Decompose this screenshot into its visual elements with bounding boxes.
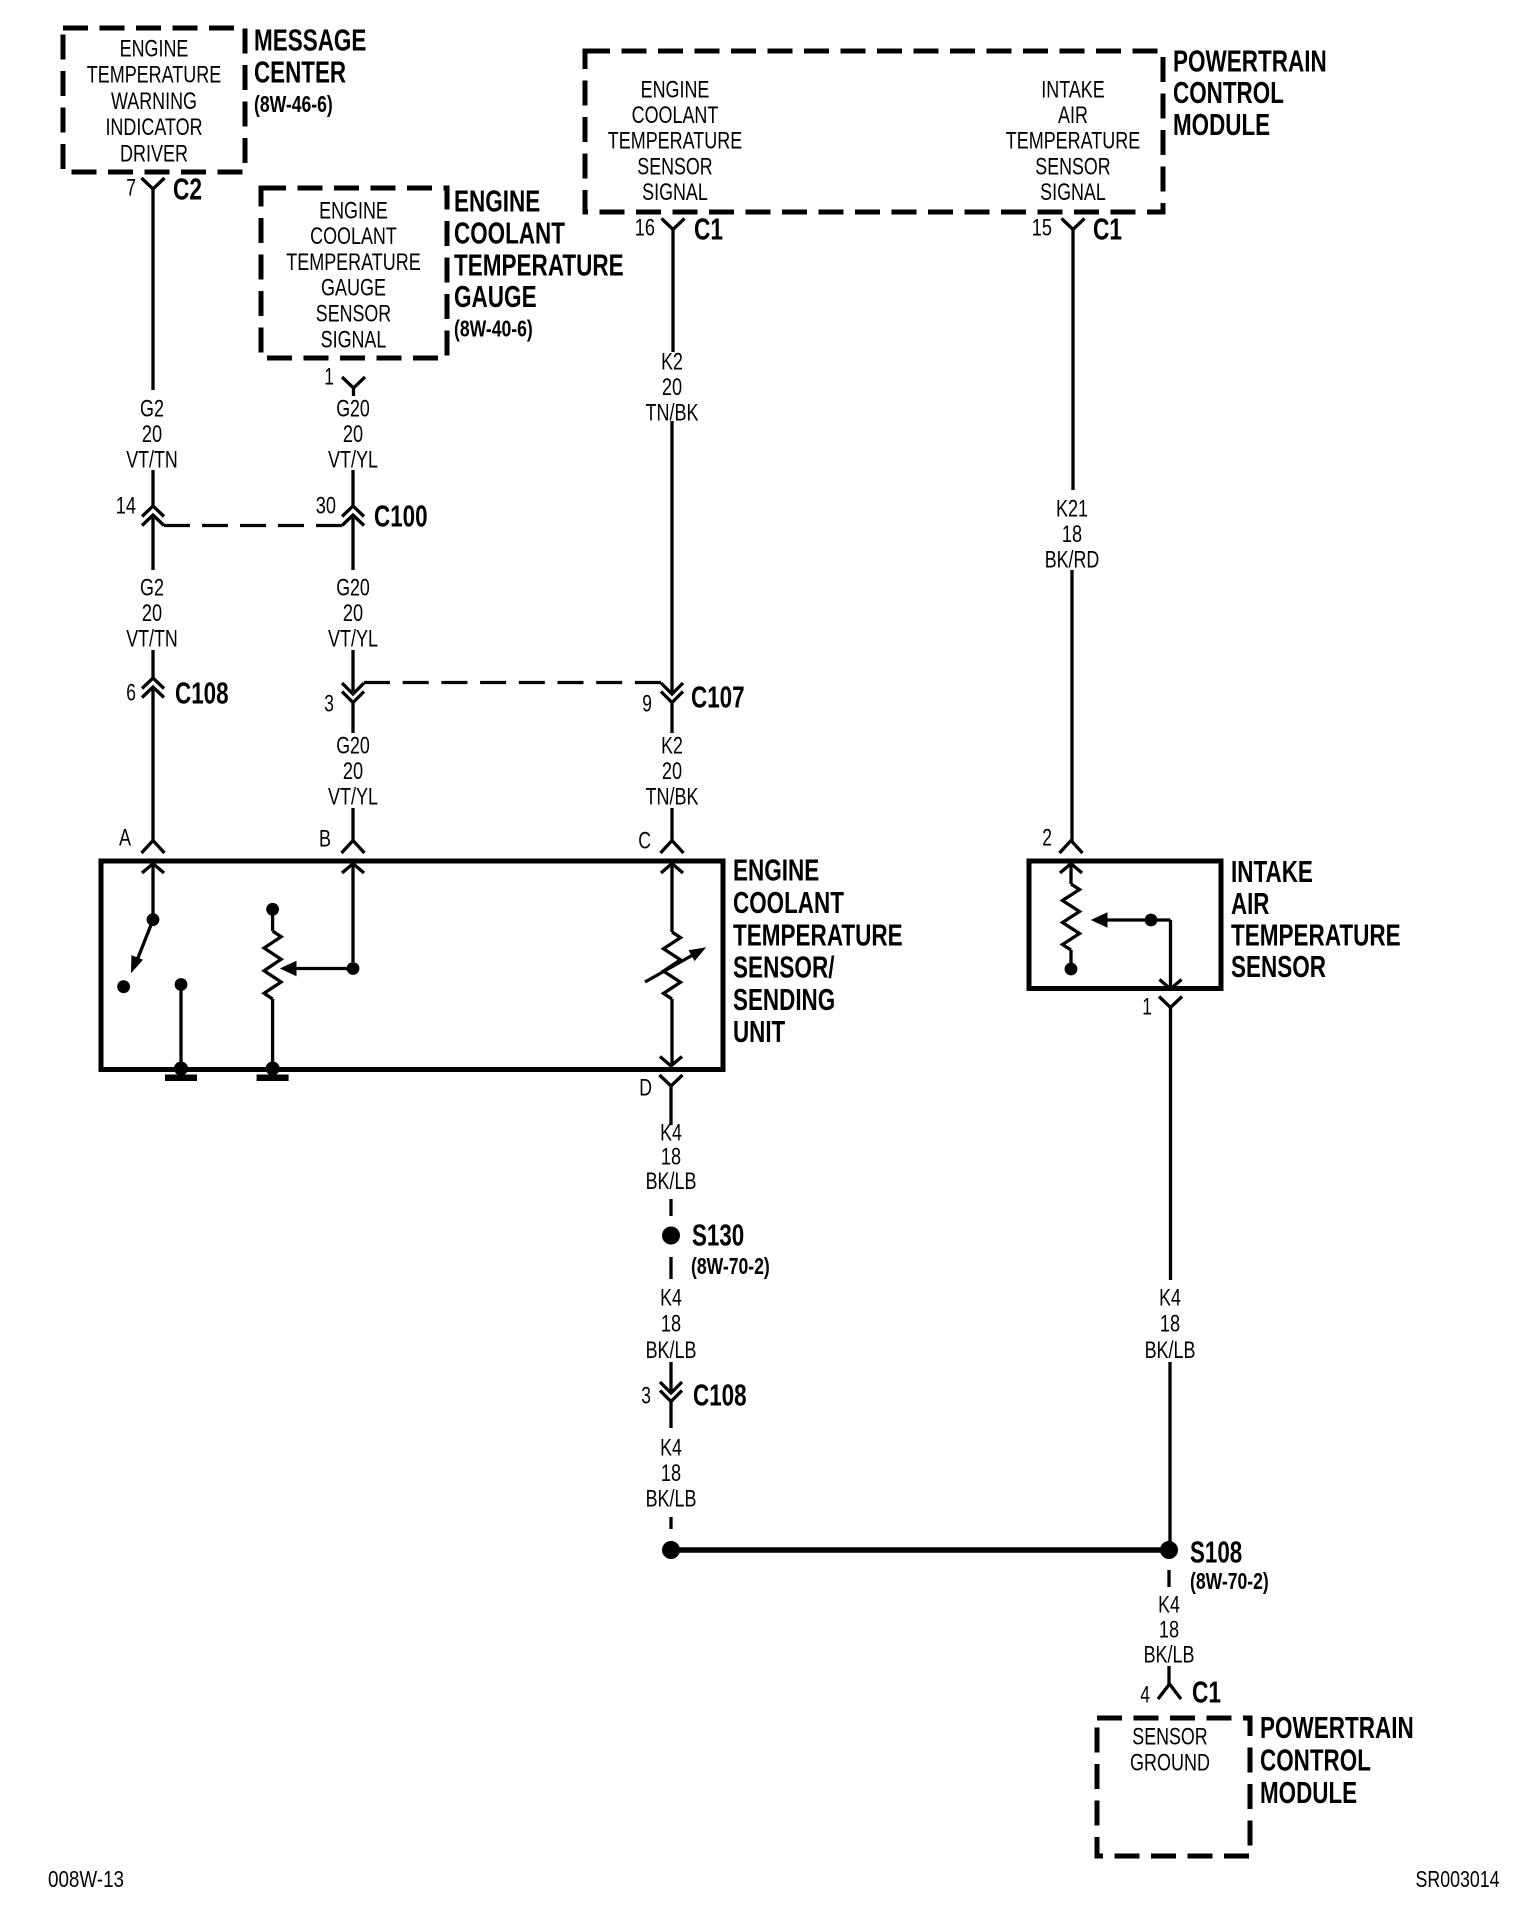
- dashed connector line C100: [164, 524, 342, 527]
- fork at pin B: [342, 841, 365, 854]
- svg-text:AIR: AIR: [1231, 886, 1269, 921]
- svg-text:CONTROL: CONTROL: [1173, 75, 1284, 110]
- svg-text:SENSOR/: SENSOR/: [733, 950, 835, 985]
- svg-text:SENSOR: SENSOR: [1132, 1723, 1207, 1750]
- svg-text:GAUGE: GAUGE: [454, 279, 537, 314]
- wire G2 to sensor A: [151, 687, 154, 841]
- svg-text:SENSOR: SENSOR: [1231, 949, 1326, 984]
- svg-text:G20: G20: [336, 732, 370, 759]
- connector C2 fork: [142, 178, 165, 189]
- svg-text:VT/YL: VT/YL: [328, 447, 378, 474]
- wire G2 from C2 to C100: [151, 189, 154, 390]
- svg-text:MODULE: MODULE: [1260, 1775, 1357, 1810]
- svg-text:ENGINE: ENGINE: [641, 76, 710, 103]
- svg-text:SENSOR: SENSOR: [1035, 153, 1110, 180]
- svg-text:S130: S130: [692, 1218, 744, 1253]
- svg-text:D: D: [639, 1074, 652, 1101]
- svg-text:BK/LB: BK/LB: [646, 1337, 697, 1364]
- svg-text:BK/LB: BK/LB: [646, 1486, 697, 1513]
- entry arrow pin 2: [1060, 864, 1082, 874]
- svg-text:K4: K4: [1158, 1591, 1180, 1618]
- exit arrow pin D: [660, 1057, 682, 1067]
- svg-text:C1: C1: [694, 212, 723, 247]
- svg-text:SIGNAL: SIGNAL: [1040, 179, 1106, 206]
- svg-text:POWERTRAIN: POWERTRAIN: [1173, 43, 1327, 78]
- svg-text:TEMPERATURE: TEMPERATURE: [608, 128, 743, 155]
- dashed wire below S108: [1167, 1570, 1170, 1587]
- wire: [151, 650, 154, 678]
- fork below gauge box: [342, 377, 365, 388]
- variable resistor (ECT sensor): [664, 932, 681, 999]
- svg-text:BK/RD: BK/RD: [1045, 547, 1100, 574]
- wire: [271, 914, 274, 931]
- connector C107 pin 3: [342, 683, 364, 694]
- wiper node: [1145, 914, 1158, 927]
- connector C107 pin 9: [661, 683, 683, 694]
- svg-text:(8W-70-2): (8W-70-2): [691, 1253, 770, 1279]
- switch arm with arrowhead: [137, 920, 154, 962]
- svg-text:BK/LB: BK/LB: [646, 1168, 697, 1195]
- module box: engine temperature warning indicator driver (message center): [63, 28, 245, 172]
- svg-text:K2: K2: [661, 732, 683, 759]
- wire: [669, 1517, 672, 1529]
- svg-text:COOLANT: COOLANT: [733, 885, 844, 920]
- svg-text:ENGINE: ENGINE: [733, 853, 819, 888]
- svg-text:C1: C1: [1192, 1675, 1221, 1710]
- component box: engine coolant temperature sensor/sending unit: [101, 861, 723, 1070]
- wire: [1168, 1362, 1171, 1545]
- svg-text:9: 9: [642, 690, 652, 717]
- wire to ground: [179, 990, 182, 1066]
- svg-text:SIGNAL: SIGNAL: [321, 326, 387, 353]
- svg-text:TEMPERATURE: TEMPERATURE: [1006, 128, 1141, 155]
- wire K2: [671, 229, 674, 352]
- svg-text:S108: S108: [1190, 1535, 1242, 1570]
- svg-text:SENDING: SENDING: [733, 982, 835, 1017]
- wiper arm with arrowhead: [1106, 918, 1151, 921]
- svg-text:TEMPERATURE: TEMPERATURE: [454, 247, 624, 282]
- fork at pin 2: [1060, 841, 1083, 854]
- svg-text:K4: K4: [660, 1119, 682, 1146]
- svg-text:TN/BK: TN/BK: [646, 784, 699, 811]
- splice S108: [1160, 1541, 1178, 1559]
- svg-text:18: 18: [661, 1460, 681, 1487]
- fork C1 pin 15: [1062, 219, 1085, 230]
- svg-text:POWERTRAIN: POWERTRAIN: [1260, 1710, 1414, 1745]
- wire: [670, 864, 673, 933]
- svg-text:6: 6: [126, 679, 136, 706]
- svg-text:ENGINE: ENGINE: [319, 197, 388, 224]
- svg-text:30: 30: [316, 492, 336, 519]
- fork below pin 1: [1159, 997, 1182, 1008]
- fork below pin D: [660, 1075, 683, 1086]
- svg-text:INTAKE: INTAKE: [1041, 76, 1105, 103]
- svg-text:G20: G20: [336, 574, 370, 601]
- fork at pin A: [142, 841, 165, 854]
- svg-text:SENSOR: SENSOR: [637, 153, 712, 180]
- switch pivot node: [147, 913, 160, 926]
- wire from wiper to pin 1: [1151, 918, 1171, 921]
- splice S130: [662, 1227, 680, 1245]
- svg-text:COOLANT: COOLANT: [454, 216, 565, 251]
- wire: [670, 703, 673, 734]
- svg-text:20: 20: [662, 758, 682, 785]
- wire K4: [1169, 1007, 1172, 1280]
- svg-text:A: A: [119, 824, 131, 851]
- wire: [670, 421, 673, 694]
- svg-text:C2: C2: [173, 172, 202, 207]
- svg-text:BK/LB: BK/LB: [1145, 1337, 1196, 1364]
- wire: [351, 808, 354, 841]
- resistor bottom node: [1065, 963, 1078, 976]
- entry arrow pin A: [142, 864, 164, 874]
- entry arrow pin B: [342, 864, 364, 874]
- wire: [1069, 950, 1072, 963]
- svg-text:C108: C108: [175, 676, 229, 711]
- svg-text:K2: K2: [661, 348, 683, 375]
- svg-text:VT/TN: VT/TN: [126, 626, 178, 653]
- switch ground contact node: [175, 978, 188, 991]
- svg-text:DRIVER: DRIVER: [120, 141, 188, 168]
- svg-text:VT/YL: VT/YL: [328, 784, 378, 811]
- svg-text:AIR: AIR: [1058, 102, 1088, 129]
- svg-text:C100: C100: [374, 499, 428, 534]
- svg-text:20: 20: [343, 758, 363, 785]
- svg-text:MODULE: MODULE: [1173, 107, 1270, 142]
- svg-text:15: 15: [1032, 214, 1052, 241]
- dashed connector line C107: [364, 681, 661, 684]
- wire: [669, 1402, 672, 1429]
- svg-text:K4: K4: [1159, 1284, 1181, 1311]
- svg-text:16: 16: [635, 214, 655, 241]
- wire: [352, 388, 355, 396]
- svg-text:18: 18: [1062, 521, 1082, 548]
- variable resistor arrow: [645, 952, 699, 983]
- svg-text:VT/TN: VT/TN: [126, 447, 178, 474]
- svg-text:20: 20: [343, 600, 363, 627]
- svg-text:GAUGE: GAUGE: [321, 275, 386, 302]
- svg-text:18: 18: [661, 1311, 681, 1338]
- svg-text:C107: C107: [691, 680, 745, 715]
- resistor (IAT sensor): [1063, 884, 1080, 950]
- svg-text:WARNING: WARNING: [111, 88, 197, 115]
- wire: [1070, 570, 1073, 841]
- component box: intake air temperature sensor: [1029, 861, 1221, 989]
- svg-text:20: 20: [142, 600, 162, 627]
- svg-text:TEMPERATURE: TEMPERATURE: [87, 62, 222, 89]
- dashed wire below S130: [669, 1257, 672, 1279]
- svg-text:14: 14: [116, 492, 136, 519]
- wire: [151, 515, 154, 570]
- svg-text:(8W-40-6): (8W-40-6): [454, 316, 533, 342]
- svg-text:B: B: [319, 825, 331, 852]
- svg-text:1: 1: [324, 363, 334, 390]
- svg-text:CENTER: CENTER: [254, 55, 346, 90]
- svg-text:18: 18: [661, 1144, 681, 1171]
- junction node to S108: [662, 1541, 680, 1559]
- svg-text:(8W-46-6): (8W-46-6): [254, 91, 333, 117]
- wire: [669, 1199, 672, 1216]
- switch contact node: [117, 980, 130, 993]
- wire: [351, 864, 354, 963]
- svg-text:008W-13: 008W-13: [48, 1866, 124, 1892]
- module box: engine coolant temperature gauge sensor signal: [261, 188, 447, 358]
- wire K21: [1071, 229, 1074, 490]
- wire: [271, 999, 274, 1066]
- svg-text:3: 3: [324, 690, 334, 717]
- svg-text:4: 4: [1140, 1681, 1150, 1708]
- svg-text:K4: K4: [660, 1434, 682, 1461]
- wire: [151, 470, 154, 506]
- resistor (gauge potentiometer): [264, 931, 281, 999]
- ground (switch): [174, 1062, 188, 1076]
- svg-text:GROUND: GROUND: [1130, 1749, 1210, 1776]
- svg-text:18: 18: [1160, 1311, 1180, 1338]
- connector C108 pin 3: [660, 1382, 682, 1393]
- wire: [351, 650, 354, 694]
- wire: [669, 1362, 672, 1393]
- svg-text:TEMPERATURE: TEMPERATURE: [1231, 917, 1401, 952]
- svg-text:20: 20: [343, 421, 363, 448]
- svg-text:ENGINE: ENGINE: [120, 35, 189, 62]
- wire: [670, 808, 673, 841]
- svg-text:TEMPERATURE: TEMPERATURE: [733, 917, 903, 952]
- wire: [351, 703, 354, 734]
- svg-text:C108: C108: [693, 1378, 747, 1413]
- svg-text:C: C: [638, 827, 651, 854]
- ground (potentiometer): [266, 1062, 280, 1076]
- svg-text:G2: G2: [140, 395, 164, 422]
- wiper arm with arrowhead: [295, 967, 353, 970]
- wire: [1167, 1666, 1170, 1684]
- fork at pin 4: [1158, 1684, 1181, 1699]
- entry arrow pin C: [661, 864, 683, 874]
- svg-text:18: 18: [1159, 1616, 1179, 1643]
- potentiometer top terminal node: [266, 903, 279, 916]
- svg-text:K4: K4: [660, 1284, 682, 1311]
- svg-text:TEMPERATURE: TEMPERATURE: [286, 249, 421, 276]
- svg-text:UNIT: UNIT: [733, 1014, 785, 1049]
- wire: [351, 470, 354, 506]
- exit arrow pin 1: [1160, 980, 1182, 990]
- svg-text:3: 3: [641, 1382, 651, 1409]
- svg-text:20: 20: [142, 421, 162, 448]
- svg-text:VT/YL: VT/YL: [328, 626, 378, 653]
- wiper node B: [347, 962, 360, 975]
- wire K4: [669, 1085, 672, 1125]
- svg-text:1: 1: [1142, 993, 1152, 1020]
- svg-text:COOLANT: COOLANT: [310, 223, 397, 250]
- svg-text:INDICATOR: INDICATOR: [105, 114, 202, 141]
- module box: powertrain control module (top): [585, 51, 1163, 212]
- module box: powertrain control module (bottom): [1097, 1718, 1250, 1856]
- svg-text:CONTROL: CONTROL: [1260, 1743, 1371, 1778]
- svg-text:BK/LB: BK/LB: [1144, 1641, 1195, 1668]
- svg-text:SENSOR: SENSOR: [316, 301, 391, 328]
- svg-text:7: 7: [126, 174, 136, 201]
- wire: [1069, 864, 1072, 885]
- svg-text:MESSAGE: MESSAGE: [254, 23, 366, 58]
- bus wire to S108: [678, 1547, 1162, 1552]
- svg-text:2: 2: [1042, 824, 1052, 851]
- svg-text:INTAKE: INTAKE: [1231, 854, 1313, 889]
- fork at pin C: [661, 841, 684, 854]
- wire: [351, 515, 354, 570]
- connector C100 pin 14: [142, 506, 164, 517]
- svg-text:C1: C1: [1093, 212, 1122, 247]
- connector C108 pin 6: [142, 678, 164, 689]
- svg-text:G2: G2: [140, 574, 164, 601]
- svg-text:(8W-70-2): (8W-70-2): [1190, 1568, 1269, 1594]
- wire: [151, 864, 154, 915]
- svg-text:SR003014: SR003014: [1416, 1866, 1500, 1892]
- svg-text:COOLANT: COOLANT: [632, 102, 719, 129]
- wire: [670, 999, 673, 1066]
- connector C100 pin 30: [342, 506, 364, 517]
- svg-text:K21: K21: [1056, 495, 1088, 522]
- svg-text:20: 20: [662, 374, 682, 401]
- svg-text:SIGNAL: SIGNAL: [642, 179, 708, 206]
- svg-text:G20: G20: [336, 395, 370, 422]
- fork C1 pin 16: [662, 219, 685, 230]
- svg-text:ENGINE: ENGINE: [454, 184, 540, 219]
